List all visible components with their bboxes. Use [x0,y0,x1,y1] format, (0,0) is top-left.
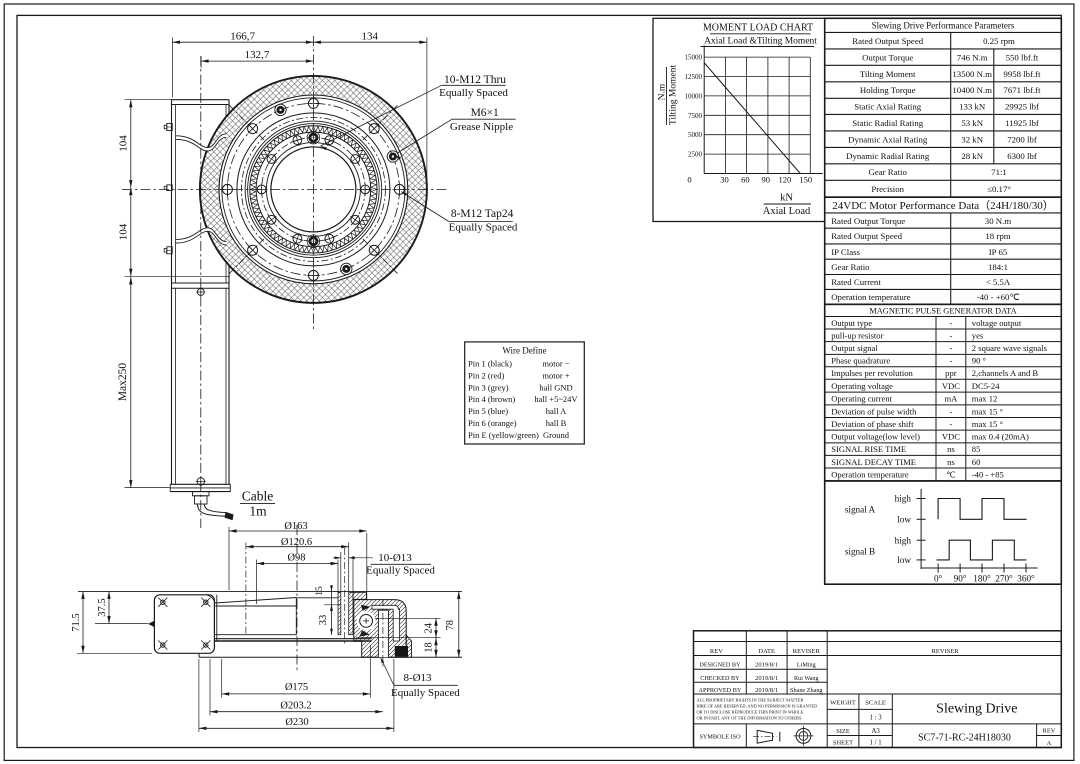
svg-text:Precision: Precision [871,184,904,194]
svg-text:Pin E (yellow/green): Pin E (yellow/green) [468,430,539,440]
flexure transition white cut lower [176,228,226,245]
svg-text:0: 0 [687,175,691,185]
svg-text:746 N.m: 746 N.m [957,52,988,62]
svg-text:-: - [949,419,952,429]
extension line left for 166,7 [172,38,174,98]
svg-text:max 12: max 12 [972,394,998,404]
title block vertical lines [745,631,747,694]
svg-text:-: - [949,356,952,366]
cable end connector [225,512,234,521]
svg-text:-: - [949,318,952,328]
svg-text:Static Radial Rating: Static Radial Rating [852,118,923,128]
svg-text:hall +5~24V: hall +5~24V [534,394,578,404]
svg-text:1 : 3: 1 : 3 [870,715,883,722]
dimension 71.5 [82,591,84,653]
svg-text:high: high [895,535,912,545]
24VDC motor performance data table [825,197,1062,304]
svg-text:REV: REV [710,648,723,655]
svg-text:≤0.17°: ≤0.17° [987,184,1011,194]
svg-text:10000: 10000 [685,92,703,100]
svg-text:Rated Output Torque: Rated Output Torque [831,216,905,226]
svg-text:Holding Torque: Holding Torque [860,85,916,95]
svg-text:Pin 4 (brown): Pin 4 (brown) [468,394,515,404]
svg-text:Pin 1 (black): Pin 1 (black) [468,359,512,369]
svg-text:133 kN: 133 kN [959,102,986,112]
motor top fillet curve [208,595,216,603]
svg-text:10400 N.m: 10400 N.m [952,85,992,95]
svg-text:132,7: 132,7 [245,49,270,61]
motor clamp screw middle [167,185,172,191]
flexure transition curves upper [176,134,226,148]
svg-text:2500: 2500 [688,151,703,159]
svg-text:78: 78 [445,620,456,631]
extension lines below side view [221,659,223,698]
svg-text:mA: mA [944,394,958,404]
outer flange crosshatched ring [200,76,427,303]
svg-text:10-Ø13: 10-Ø13 [378,552,412,564]
svg-text:1 / 1: 1 / 1 [870,740,882,747]
svg-text:max 15 °: max 15 ° [972,406,1004,416]
dimension 132,7 [201,60,313,62]
motor left tip [148,621,155,628]
housing bottom-right step [406,635,411,657]
inner plug holes (bold, 90/270 deg) [307,131,320,144]
svg-text:12500: 12500 [685,73,703,81]
svg-text:90 °: 90 ° [972,356,987,366]
svg-text:Ø230: Ø230 [285,717,308,728]
motor clamp screw lower [167,247,172,254]
svg-text:hall GND: hall GND [539,382,572,392]
flange inner step circle [237,113,390,266]
svg-text:30: 30 [720,175,729,185]
svg-text:Equally Spaced: Equally Spaced [391,687,460,699]
dimension 166,7 and 134 top [173,41,427,43]
svg-text:32 kN: 32 kN [961,134,983,144]
gear teeth zigzag ring [250,126,376,252]
svg-text:VDC: VDC [942,432,960,442]
svg-text:yes: yes [972,330,984,340]
svg-text:motor −: motor − [542,359,569,369]
cable gland [193,492,210,496]
svg-text:Operating voltage: Operating voltage [831,381,893,391]
svg-text:SHEET: SHEET [833,740,853,747]
svg-text:Shane Zhang: Shane Zhang [790,687,822,694]
leader 10-M12 Thru [321,85,442,146]
svg-text:18 rpm: 18 rpm [985,231,1010,241]
inner bolt holes 10-M12 Thru [361,185,370,194]
svg-text:voltage output: voltage output [972,318,1022,328]
wire define box [465,342,585,444]
chart grid [704,56,810,58]
svg-text:Max250: Max250 [117,363,129,402]
flexure transition curves lower [176,231,226,245]
svg-text:SIGNAL RISE TIME: SIGNAL RISE TIME [831,444,906,454]
svg-text:2019/8/1: 2019/8/1 [755,687,778,694]
chart load line [704,63,800,174]
svg-text:24: 24 [424,622,435,633]
dimension 24 [435,618,437,637]
svg-text:Ø175: Ø175 [285,682,308,693]
body vertical behind motor [216,595,218,641]
svg-text:5000: 5000 [688,131,703,139]
moment load chart box [653,18,825,221]
signal B waveform [937,540,1027,560]
svg-text:max 15 °: max 15 ° [972,419,1004,429]
side view body inner wall [295,598,297,635]
flexure transition white cut upper [176,134,226,151]
title block outline [694,631,1062,748]
svg-text:< 5.5A: < 5.5A [986,277,1011,287]
svg-text:Equally Spaced: Equally Spaced [449,222,518,234]
svg-text:hall A: hall A [546,406,567,416]
extension lines for 104 dims [125,99,173,101]
leader 10-O13 [333,557,341,559]
svg-text:60: 60 [972,457,981,467]
dimension O230 [199,727,394,729]
projection circle symbol [796,729,811,744]
seal ring (black) [395,646,408,657]
svg-text:104: 104 [118,223,130,240]
svg-text:6300 lbf: 6300 lbf [1007,151,1037,161]
svg-text:Pin 3 (grey): Pin 3 (grey) [468,382,509,392]
svg-text:Gear Ratio: Gear Ratio [831,262,870,272]
motor centerline [200,56,202,528]
tube top bolt [197,289,204,296]
motor housing body (front view) [172,99,230,101]
outer bolt circle (8-M12) centerline [227,103,399,275]
svg-text:-: - [949,330,952,340]
svg-text:IP 65: IP 65 [989,247,1008,257]
dimension O120.6 [246,546,349,548]
svg-text:-: - [949,406,952,416]
svg-text:CHECKED BY: CHECKED BY [700,675,740,682]
svg-text:Tilting Moment: Tilting Moment [860,69,916,79]
svg-text:90°: 90° [954,574,967,584]
inner edge of hatched ring [219,95,408,284]
svg-text:53 kN: 53 kN [961,118,983,128]
svg-text:-: - [949,343,952,353]
svg-text:134: 134 [361,31,378,43]
svg-text:270°: 270° [995,574,1013,584]
svg-text:Phase quadrature: Phase quadrature [831,356,890,366]
svg-text:Dynamic Radial Rating: Dynamic Radial Rating [846,151,930,161]
svg-text:8-Ø13: 8-Ø13 [403,672,432,684]
svg-text:ns: ns [947,444,955,454]
svg-text:DC5-24: DC5-24 [972,381,1000,391]
svg-text:Axial Load: Axial Load [763,206,811,217]
bearing ball [360,615,373,628]
svg-text:33: 33 [318,615,329,626]
dimension 18 [435,638,437,658]
svg-text:kN: kN [780,193,793,204]
extension lines above side view [228,527,230,590]
svg-text:2,channels A and B: 2,channels A and B [972,368,1039,378]
svg-text:104: 104 [118,135,130,152]
svg-text:Dynamic Axial Rating: Dynamic Axial Rating [848,134,928,144]
dimension O163 [229,530,367,532]
svg-text:Deviation of phase shift: Deviation of phase shift [831,419,914,429]
title block horizontal lines [694,641,1062,643]
svg-text:0.25 rpm: 0.25 rpm [983,36,1015,46]
svg-text:166,7: 166,7 [230,31,255,43]
flange face circle [222,98,405,281]
inner ring hatched band (section) [338,592,341,634]
dimension O98 [257,563,338,565]
dimension O175 [222,693,371,695]
svg-text:Slewing Drive: Slewing Drive [936,702,1017,717]
svg-text:REV: REV [1043,728,1056,735]
svg-text:MOMENT LOAD CHART: MOMENT LOAD CHART [703,23,813,34]
chart axes [703,45,705,173]
outer circle of flange [200,76,427,303]
svg-text:max 0.4 (20mA): max 0.4 (20mA) [972,432,1029,442]
svg-text:N.m: N.m [658,83,668,100]
svg-text:low: low [897,515,911,525]
svg-text:DATE: DATE [758,648,775,655]
motor tube below drive [172,282,230,284]
counterbore circle [266,142,360,236]
svg-text:150: 150 [799,175,812,185]
diagonal centerlines across bolt ring [363,104,399,140]
svg-text:Wire Define: Wire Define [502,346,546,356]
svg-text:Pin 2 (red): Pin 2 (red) [468,370,505,380]
svg-text:8-M12 Tap24: 8-M12 Tap24 [451,208,514,220]
svg-text:Operation temperature: Operation temperature [831,470,909,480]
svg-text:85: 85 [972,444,981,454]
svg-text:Output type: Output type [831,318,872,328]
svg-text:Axial Load &Tilting Moment: Axial Load &Tilting Moment [704,36,817,46]
svg-text:Operation temperature: Operation temperature [831,292,910,302]
svg-text:pull-up resistor: pull-up resistor [831,330,883,340]
housing inner white channel [372,605,400,641]
leader 8-M12 Tap24 [403,193,449,222]
dimension 104 / 104 left side [130,100,132,277]
svg-text:360°: 360° [1017,574,1035,584]
svg-text:Rated Current: Rated Current [831,277,881,287]
signal axis [920,489,922,569]
svg-text:ns: ns [947,457,955,467]
svg-text:high: high [895,494,912,504]
svg-text:SC7-71-RC-24H18030: SC7-71-RC-24H18030 [918,733,1011,744]
svg-text:Tilting Moment: Tilting Moment [669,65,679,125]
svg-text:Output voltage(low level): Output voltage(low level) [831,432,920,442]
dimension 33 [331,605,333,635]
vertical centerline of front view [312,36,314,332]
svg-text:37.5: 37.5 [97,598,108,616]
outer housing hatched section [354,600,406,658]
svg-text:M6×1: M6×1 [471,107,499,119]
svg-text:Output signal: Output signal [831,343,878,353]
svg-text:Slewing Drive Performance Para: Slewing Drive Performance Parameters [872,21,1015,31]
svg-text:Output Torque: Output Torque [862,52,913,62]
svg-text:2 square wave signals: 2 square wave signals [972,343,1048,353]
svg-text:VDC: VDC [942,381,960,391]
tube bottom bolt [197,478,204,485]
svg-text:℃: ℃ [946,470,956,480]
center bore circle [271,147,356,232]
bottom flange [199,640,372,642]
svg-text:LiMing: LiMing [797,661,816,668]
dimension 15 [331,585,333,611]
dimension 78 [458,591,460,657]
svg-text:24VDC Motor Performance Data（2: 24VDC Motor Performance Data（24H/180/30） [832,199,1054,212]
svg-text:1m: 1m [249,504,267,519]
inner assembly outer circle [245,121,382,258]
svg-text:2019/8/1: 2019/8/1 [755,661,778,668]
svg-text:ALL PROPRIETARY RIGHTS IN THE: ALL PROPRIETARY RIGHTS IN THE SUBJECT MA… [697,697,804,702]
svg-text:15: 15 [315,586,325,596]
svg-text:11925 lbf: 11925 lbf [1005,118,1039,128]
svg-text:Static Axial Rating: Static Axial Rating [854,102,922,112]
inner bolt circle (10-M12) centerline [262,138,366,242]
svg-text:Cable: Cable [242,489,274,504]
magnetic pulse generator data table [825,304,1062,481]
svg-text:30 N.m: 30 N.m [985,216,1012,226]
side view centerlines [296,525,298,672]
svg-text:Rated Output Speed: Rated Output Speed [831,231,902,241]
svg-text:ppr: ppr [945,368,957,378]
signal waveform box [825,481,1062,584]
svg-text:SIGNAL DECAY TIME: SIGNAL DECAY TIME [831,457,916,467]
side view top surface line [78,590,462,592]
svg-text:7200 lbf: 7200 lbf [1007,134,1037,144]
svg-text:Ø203.2: Ø203.2 [280,701,311,712]
svg-text:Impulses per revolution: Impulses per revolution [831,368,913,378]
svg-text:Pin 5 (blue): Pin 5 (blue) [468,406,508,416]
svg-text:550 lbf.ft: 550 lbf.ft [1006,52,1039,62]
side view boss chamfer edge [215,598,296,604]
svg-text:15000: 15000 [685,54,703,62]
svg-text:hall B: hall B [546,418,567,428]
svg-text:7500: 7500 [688,112,703,120]
side view under-boss step [215,605,296,607]
svg-text:Ground: Ground [543,430,570,440]
side view body bottom lines [215,634,297,636]
8-O13 bolt hole slot (white) [378,610,388,657]
svg-text:-40 - +85: -40 - +85 [972,470,1004,480]
svg-text:10-M12 Thru: 10-M12 Thru [444,74,506,86]
svg-text:signal A: signal A [845,505,876,515]
svg-text:IP Class: IP Class [831,247,860,257]
svg-text:7671 lbf.ft: 7671 lbf.ft [1003,85,1041,95]
svg-text:MAGNETIC PULSE GENERATOR DATA: MAGNETIC PULSE GENERATOR DATA [869,307,1016,316]
tube bottom cap [170,483,230,485]
svg-text:OR TO DISCLOSE REPRODUCE THIS: OR TO DISCLOSE REPRODUCE THIS PRINT IN W… [697,709,804,714]
svg-text:29925 lbf: 29925 lbf [1005,102,1039,112]
svg-text:low: low [897,555,911,565]
svg-text:0°: 0° [934,574,943,584]
svg-text:Rui Wang: Rui Wang [794,675,819,682]
svg-text:Operating current: Operating current [831,394,892,404]
svg-text:WEIGHT: WEIGHT [830,700,856,707]
svg-text:2019/8/1: 2019/8/1 [755,675,778,682]
svg-text:-40 - +60℃: -40 - +60℃ [977,292,1020,302]
leader M6x1 Grease Nipple [397,119,452,153]
outer bolt holes 8-M12 Tap24 [394,184,404,194]
extension line right for 134 [426,38,428,183]
horizontal centerline of front view [122,188,448,190]
svg-text:A3: A3 [871,728,880,735]
svg-text:71:1: 71:1 [991,167,1007,177]
svg-text:120: 120 [779,175,792,185]
svg-text:90: 90 [762,175,771,185]
dimension Max250 [130,277,132,488]
slewing drive performance parameters table [825,18,1062,197]
svg-text:184:1: 184:1 [988,262,1008,272]
svg-text:Deviation of pulse width: Deviation of pulse width [831,406,917,416]
dimension 37.5 [108,591,110,623]
motor screws x4 [161,600,165,604]
bearing raceway dashed circle [241,117,385,261]
svg-text:Gear Ratio: Gear Ratio [869,167,908,177]
svg-text:signal B: signal B [845,547,875,557]
bearing raceway line [356,637,373,639]
svg-text:motor +: motor + [542,370,569,380]
leader 8-O13 [381,658,394,686]
svg-text:71.5: 71.5 [71,613,82,631]
svg-text:SCALE: SCALE [865,700,886,707]
svg-text:A: A [1047,740,1052,747]
svg-text:9958 lbf.ft: 9958 lbf.ft [1003,69,1041,79]
svg-text:Ø120.6: Ø120.6 [281,537,312,548]
svg-text:18: 18 [424,642,435,653]
raceway contact arrows [361,605,370,611]
svg-text:Ø98: Ø98 [287,553,305,564]
x axis ticks and labels [937,564,939,573]
slewing ring disc (occludes motor) [200,76,427,303]
svg-text:SYMBOLE ISO: SYMBOLE ISO [699,733,741,740]
svg-text:REVISER: REVISER [793,648,821,655]
cable curve 1m [198,504,226,516]
svg-text:SIZE: SIZE [836,728,850,735]
svg-text:Equally Spaced: Equally Spaced [439,87,508,99]
svg-text:Ø163: Ø163 [284,521,307,532]
svg-text:Rated Output Speed: Rated Output Speed [852,36,923,46]
dimension O203.2 [210,711,383,713]
motor clamp screw upper [167,124,172,131]
svg-text:180°: 180° [973,574,991,584]
svg-text:DESIGNED BY: DESIGNED BY [699,661,741,668]
svg-text:APPROVED BY: APPROVED BY [698,687,741,694]
svg-text:Pin 6 (orange): Pin 6 (orange) [468,418,517,428]
svg-text:13500 N.m: 13500 N.m [952,69,992,79]
svg-text:Grease Nipple: Grease Nipple [450,121,513,133]
inner ring overhang lip [353,592,366,599]
bearing ball pocket [357,611,376,630]
svg-text:28 kN: 28 kN [961,151,983,161]
first angle projection cone symbol [757,730,772,743]
motor (side view) [154,595,214,654]
signal A waveform [938,499,1026,520]
svg-text:REVISER: REVISER [932,648,960,655]
svg-text:Equally Spaced: Equally Spaced [366,565,435,577]
grease nipple M6x1 (bold, 22.5 deg) [387,151,398,162]
svg-text:60: 60 [741,175,750,185]
